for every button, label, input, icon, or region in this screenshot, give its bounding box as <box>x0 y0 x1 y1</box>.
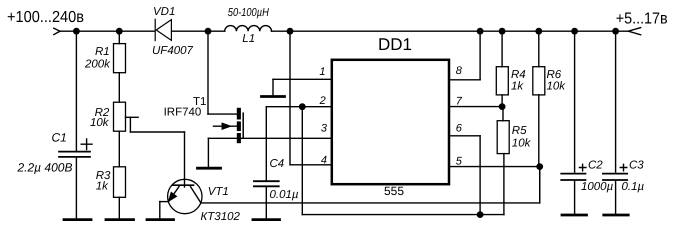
svg-text:+5...17в: +5...17в <box>616 10 668 27</box>
svg-text:C3: C3 <box>629 159 644 171</box>
svg-text:R6: R6 <box>547 69 562 81</box>
svg-text:R4: R4 <box>511 69 526 81</box>
svg-text:+100...240в: +100...240в <box>7 9 84 26</box>
svg-text:1k: 1k <box>511 81 524 93</box>
svg-text:0.1µ: 0.1µ <box>622 181 645 193</box>
svg-text:2.2µ 400В: 2.2µ 400В <box>17 161 73 175</box>
svg-text:50-100µH: 50-100µH <box>228 7 270 19</box>
svg-text:IRF740: IRF740 <box>164 107 202 119</box>
svg-text:7: 7 <box>456 96 463 108</box>
svg-text:10k: 10k <box>90 117 110 129</box>
svg-text:10k: 10k <box>512 138 532 150</box>
svg-text:0.01µ: 0.01µ <box>270 189 299 201</box>
svg-text:555: 555 <box>384 184 404 198</box>
svg-text:6: 6 <box>456 123 463 135</box>
svg-text:R1: R1 <box>95 46 110 58</box>
svg-text:3: 3 <box>321 123 328 135</box>
svg-text:C4: C4 <box>270 158 285 170</box>
svg-text:R5: R5 <box>512 125 527 137</box>
svg-text:5: 5 <box>456 156 463 168</box>
svg-text:200k: 200k <box>84 59 111 71</box>
svg-text:1000µ: 1000µ <box>581 181 614 193</box>
svg-text:UF4007: UF4007 <box>152 45 194 57</box>
svg-text:4: 4 <box>321 155 327 167</box>
svg-text:VT1: VT1 <box>208 186 229 198</box>
svg-text:10k: 10k <box>547 81 567 93</box>
svg-text:КТ3102: КТ3102 <box>201 211 241 223</box>
svg-text:1: 1 <box>319 66 325 78</box>
svg-text:C1: C1 <box>52 131 67 145</box>
svg-text:C2: C2 <box>588 159 603 171</box>
svg-text:DD1: DD1 <box>378 35 412 54</box>
svg-text:2: 2 <box>319 95 326 107</box>
svg-text:1k: 1k <box>96 181 109 193</box>
svg-text:VD1: VD1 <box>153 6 175 18</box>
svg-text:8: 8 <box>456 65 463 77</box>
svg-text:L1: L1 <box>242 33 255 45</box>
